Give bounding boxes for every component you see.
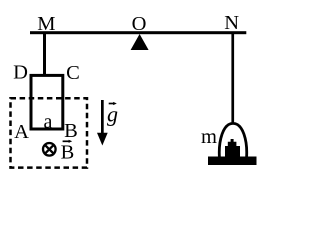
svg-text:M: M: [37, 13, 55, 35]
fulcrum (pivot triangle at O): [131, 34, 149, 50]
weight (stepped mass block): [225, 139, 240, 157]
svg-text:B: B: [61, 142, 75, 164]
field symbol (circled cross, B into page): [43, 143, 56, 156]
label g vector (with over-arrow): [107, 102, 118, 127]
loop ABCD (rectangular coil): [31, 75, 63, 129]
pan base platform: [208, 157, 257, 166]
svg-text:D: D: [13, 62, 28, 84]
svg-text:O: O: [132, 13, 147, 35]
svg-text:m: m: [201, 126, 217, 148]
svg-text:N: N: [224, 12, 239, 34]
wire left string from M to loop: [43, 34, 46, 75]
pan hook (arch over weight): [219, 123, 246, 157]
svg-text:B: B: [64, 120, 78, 142]
field region (dashed box): [11, 98, 88, 167]
svg-text:C: C: [66, 62, 80, 84]
svg-text:a: a: [44, 111, 53, 133]
label B vector (field label with over-arrow): [61, 140, 75, 164]
beam MN (lever arm): [30, 31, 246, 34]
wire right string from N to pan: [231, 34, 234, 123]
svg-text:g: g: [107, 102, 118, 127]
g vector arrow (gravity): [97, 100, 108, 146]
svg-text:A: A: [14, 121, 29, 143]
